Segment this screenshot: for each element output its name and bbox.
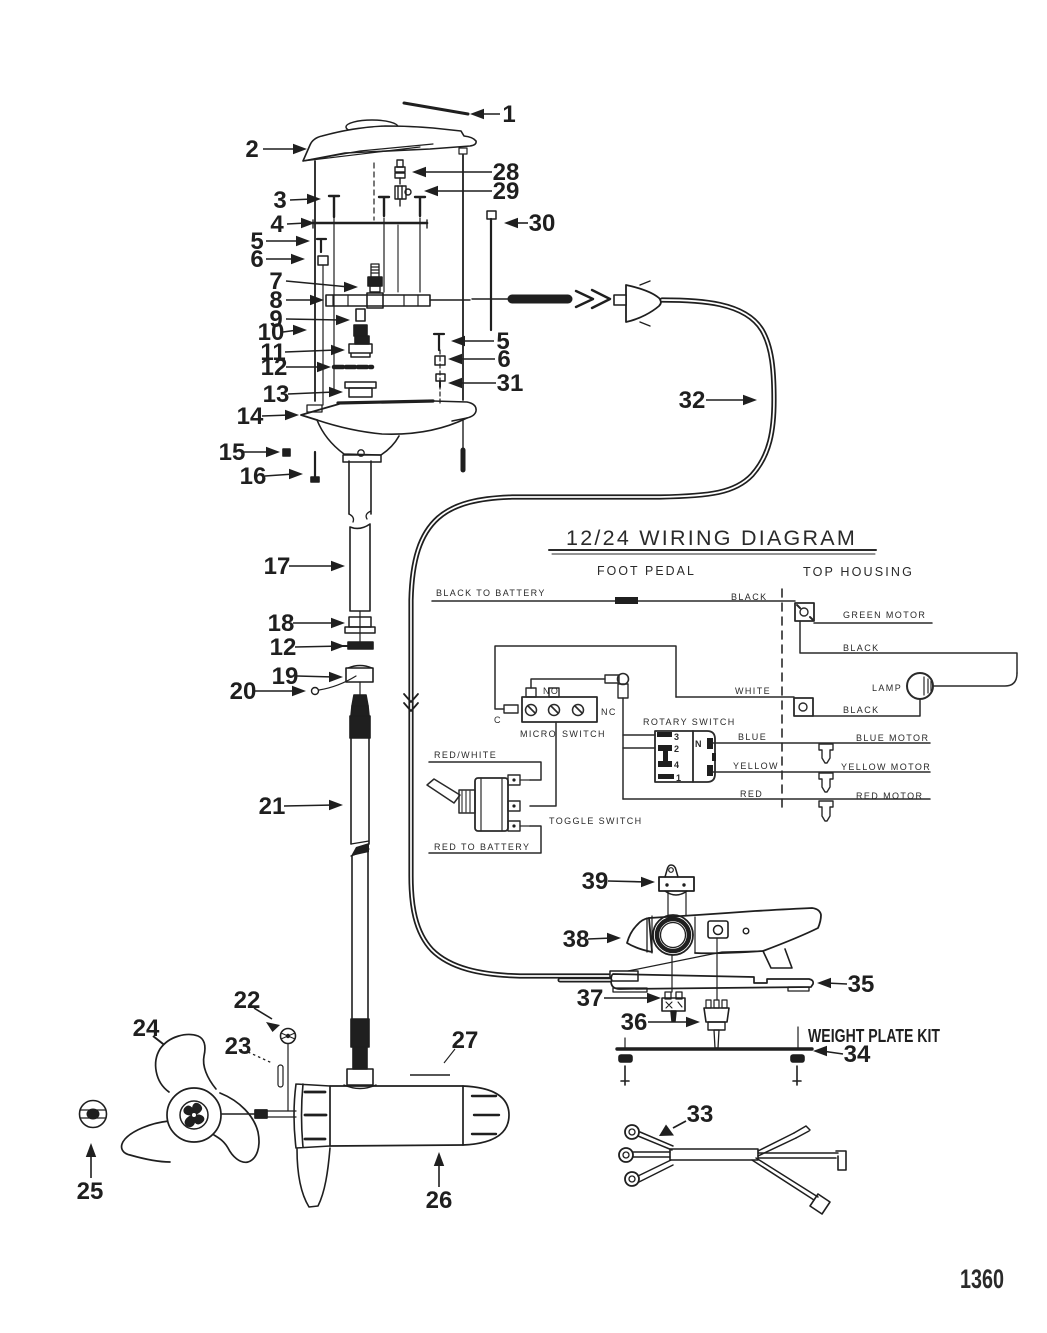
svg-text:GREEN MOTOR: GREEN MOTOR bbox=[843, 610, 926, 620]
collar 18 bbox=[349, 617, 371, 627]
dial ring bbox=[653, 915, 693, 955]
toggle switch neck bbox=[459, 790, 475, 813]
svg-text:39: 39 bbox=[582, 868, 609, 895]
branch up-right bbox=[758, 1133, 796, 1156]
label 36 leader bbox=[648, 1021, 691, 1023]
cover right nub bbox=[459, 148, 467, 154]
propeller blade right bbox=[214, 1093, 259, 1162]
bullet connector red bbox=[819, 801, 833, 821]
shaft break bbox=[351, 841, 369, 856]
svg-text:BLACK: BLACK bbox=[843, 705, 880, 715]
label 16 leader bbox=[265, 474, 294, 476]
leader button to 36 bbox=[716, 938, 718, 1000]
spacer 9 bbox=[356, 309, 365, 321]
label 11 leader bbox=[285, 350, 336, 352]
label 2 leader bbox=[263, 148, 298, 150]
long screw line mid bbox=[383, 218, 385, 292]
cable tie 30 bbox=[487, 211, 496, 219]
right hanging bolt bbox=[462, 420, 464, 450]
svg-text:MICRO: MICRO bbox=[520, 729, 557, 739]
micro switch body bbox=[522, 697, 597, 722]
bushing 10 bbox=[354, 325, 367, 336]
svg-text:SWITCH: SWITCH bbox=[562, 729, 606, 739]
connector housing 1 bbox=[795, 603, 814, 621]
svg-text:NC: NC bbox=[601, 707, 617, 717]
label 35 leader bbox=[826, 983, 847, 984]
connector 36 bbox=[706, 1000, 711, 1008]
wire BLACK upper bbox=[800, 621, 1017, 673]
svg-text:C: C bbox=[494, 715, 502, 725]
svg-text:20: 20 bbox=[230, 678, 257, 705]
svg-text:36: 36 bbox=[621, 1009, 648, 1036]
upper shaft tube bbox=[349, 461, 371, 514]
label 32 leader bbox=[706, 399, 748, 401]
seal 13 bbox=[345, 382, 376, 388]
label 10 leader bbox=[283, 330, 298, 332]
skeg fin bbox=[297, 1148, 330, 1207]
small hole bbox=[743, 928, 749, 934]
svg-text:3: 3 bbox=[273, 187, 286, 214]
svg-text:YELLOW: YELLOW bbox=[733, 761, 779, 771]
long screw line right bbox=[419, 218, 421, 292]
svg-text:31: 31 bbox=[497, 370, 524, 397]
top housing cover (2) bbox=[303, 126, 476, 161]
shaft segment 2 bbox=[350, 524, 370, 611]
svg-text:12: 12 bbox=[270, 634, 297, 661]
strain relief bell bbox=[626, 285, 661, 322]
svg-text:RED/WHITE: RED/WHITE bbox=[434, 750, 497, 760]
plate line (4) bbox=[313, 222, 427, 225]
part 1 rod bbox=[404, 103, 468, 114]
svg-text:29: 29 bbox=[493, 178, 520, 205]
cable thick segment at motor bbox=[472, 298, 512, 300]
label 23 leader bbox=[248, 1052, 272, 1063]
svg-text:24: 24 bbox=[133, 1015, 160, 1042]
screw 28 bbox=[395, 160, 405, 184]
svg-text:1: 1 bbox=[676, 773, 682, 783]
bullet connector yellow bbox=[819, 773, 833, 792]
svg-text:4: 4 bbox=[270, 211, 284, 238]
label 6 leader bbox=[457, 358, 495, 360]
bullet connector blue bbox=[819, 744, 833, 763]
toggle switch body bbox=[475, 778, 508, 831]
svg-text:32: 32 bbox=[679, 387, 706, 414]
prop nut 25 bbox=[80, 1101, 107, 1128]
ring terminal 3 bbox=[625, 1172, 639, 1186]
prop shaft bbox=[222, 1113, 255, 1115]
under-pedal braces bbox=[628, 951, 763, 971]
label 12 leader bbox=[295, 646, 343, 647]
bearing 11 bbox=[355, 336, 369, 344]
elbow connector bbox=[605, 675, 619, 683]
switch 37 bbox=[665, 992, 671, 999]
svg-text:FOOT PEDAL: FOOT PEDAL bbox=[597, 563, 696, 578]
svg-text:30: 30 bbox=[529, 210, 556, 237]
label 21 leader bbox=[284, 805, 334, 806]
svg-text:RED MOTOR: RED MOTOR bbox=[856, 791, 923, 801]
svg-text:TOGGLE SWITCH: TOGGLE SWITCH bbox=[549, 816, 643, 826]
wire NO to toggle bbox=[530, 722, 556, 806]
svg-text:26: 26 bbox=[426, 1187, 453, 1214]
svg-text:21: 21 bbox=[259, 793, 286, 820]
label 27 leader bbox=[444, 1049, 455, 1063]
svg-text:3: 3 bbox=[674, 732, 680, 742]
svg-text:16: 16 bbox=[240, 463, 267, 490]
svg-text:NO: NO bbox=[543, 686, 559, 696]
wire elbow to rotary bbox=[622, 698, 624, 799]
svg-text:LAMP: LAMP bbox=[872, 683, 902, 693]
washer stack 12 bbox=[334, 365, 372, 370]
svg-text:N: N bbox=[695, 739, 703, 749]
label 14 leader bbox=[262, 415, 290, 416]
main cable (32) bbox=[411, 300, 774, 976]
svg-text:6: 6 bbox=[497, 346, 510, 373]
screw 31 bbox=[436, 374, 445, 381]
branch right bbox=[758, 1153, 838, 1158]
svg-text:25: 25 bbox=[77, 1178, 104, 1205]
label 29 leader bbox=[433, 190, 492, 192]
label 6 leader bbox=[266, 258, 296, 260]
pin 5 right bbox=[434, 334, 444, 350]
svg-text:1360: 1360 bbox=[960, 1264, 1004, 1294]
svg-text:12: 12 bbox=[261, 354, 288, 381]
svg-text:37: 37 bbox=[577, 985, 604, 1012]
center dashed line bbox=[373, 163, 375, 220]
svg-text:BLACK TO BATTERY: BLACK TO BATTERY bbox=[436, 588, 546, 598]
cable end connector at pedal bbox=[610, 971, 638, 981]
svg-text:27: 27 bbox=[452, 1027, 479, 1054]
micro switch 39 bbox=[665, 865, 678, 877]
svg-text:17: 17 bbox=[264, 553, 291, 580]
harness bundle bbox=[670, 1149, 758, 1160]
svg-text:12/24 WIRING DIAGRAM: 12/24 WIRING DIAGRAM bbox=[566, 527, 857, 550]
label 8 leader bbox=[286, 299, 315, 301]
inner line from part 6 bbox=[322, 265, 324, 405]
svg-text:WEIGHT PLATE KIT: WEIGHT PLATE KIT bbox=[808, 1026, 940, 1046]
motor body right line bbox=[462, 155, 464, 400]
label 34 leader bbox=[822, 1051, 843, 1054]
centerline bbox=[359, 611, 361, 643]
svg-text:2: 2 bbox=[674, 744, 680, 754]
control loop wire bbox=[495, 646, 676, 709]
bolt 7 bbox=[371, 264, 379, 277]
spinner bbox=[184, 1103, 204, 1126]
svg-text:WHITE: WHITE bbox=[735, 686, 771, 696]
svg-text:15: 15 bbox=[219, 439, 246, 466]
motor housing body bbox=[330, 1086, 463, 1146]
svg-text:6: 6 bbox=[250, 246, 263, 273]
connector housing 2 bbox=[794, 698, 813, 716]
collar under housing bbox=[343, 455, 381, 462]
label 3 leader bbox=[290, 199, 312, 200]
label 1 leader bbox=[479, 113, 500, 115]
motor housing 26 front band bbox=[294, 1084, 330, 1148]
lower unit housing (14) bbox=[338, 401, 433, 403]
momentary button bbox=[708, 921, 728, 938]
svg-text:19: 19 bbox=[272, 663, 299, 690]
svg-text:23: 23 bbox=[225, 1033, 252, 1060]
label 18 leader bbox=[293, 622, 336, 624]
nuts bbox=[619, 1055, 632, 1062]
label 25 leader bbox=[90, 1152, 92, 1178]
steering arm (8) bbox=[326, 295, 430, 306]
propeller blade left bbox=[122, 1121, 170, 1162]
set screw 20 bbox=[312, 688, 319, 695]
weight plate (34) bbox=[617, 1047, 812, 1050]
svg-text:BLACK: BLACK bbox=[843, 643, 880, 653]
leader dial to 37 bbox=[671, 955, 673, 992]
label 12 leader bbox=[286, 366, 322, 368]
svg-text:RED TO BATTERY: RED TO BATTERY bbox=[434, 842, 530, 852]
toggle terminals bbox=[508, 775, 520, 785]
motor rear cap bbox=[463, 1086, 509, 1145]
long bolt line left bbox=[333, 218, 335, 393]
nut 6 left bbox=[318, 256, 328, 265]
branch down-right bbox=[752, 1158, 818, 1200]
svg-text:38: 38 bbox=[563, 926, 590, 953]
threaded end bbox=[351, 1019, 369, 1047]
right inner dashed line bbox=[439, 350, 441, 403]
svg-text:BLUE MOTOR: BLUE MOTOR bbox=[856, 733, 929, 743]
housing lip left bbox=[307, 405, 322, 412]
svg-text:33: 33 bbox=[687, 1101, 714, 1128]
shear pin 23 bbox=[278, 1065, 283, 1087]
base plate (35) bbox=[611, 974, 813, 989]
label 4 leader bbox=[287, 223, 306, 224]
label 7 leader bbox=[286, 281, 349, 287]
label 20 leader bbox=[255, 690, 297, 692]
bracket 29 bbox=[395, 186, 411, 206]
anode screw 22 bbox=[281, 1029, 296, 1044]
label 28 leader bbox=[421, 171, 492, 173]
svg-text:ROTARY SWITCH: ROTARY SWITCH bbox=[643, 717, 736, 727]
label 39 leader bbox=[608, 881, 646, 882]
label 24 leader bbox=[153, 1036, 172, 1051]
pin 5 left bbox=[317, 239, 326, 252]
dashed divider bbox=[781, 589, 783, 813]
svg-text:TOP HOUSING: TOP HOUSING bbox=[803, 564, 914, 579]
cable chevrons bbox=[576, 290, 610, 308]
label 9 leader bbox=[286, 319, 341, 320]
bolt mid bbox=[379, 197, 389, 216]
micro switch plug C bbox=[504, 705, 518, 713]
svg-text:BLACK: BLACK bbox=[731, 592, 768, 602]
depth collar 19 bbox=[348, 666, 372, 669]
cable into base bbox=[560, 978, 610, 983]
lower shaft tube (21) bbox=[351, 738, 369, 844]
prop hub bbox=[167, 1088, 221, 1142]
heel support bbox=[763, 949, 792, 968]
screws bbox=[621, 1066, 629, 1085]
svg-text:2: 2 bbox=[245, 136, 258, 163]
svg-text:22: 22 bbox=[234, 987, 261, 1014]
pin 15 bbox=[283, 449, 290, 456]
label 30 leader bbox=[513, 222, 528, 224]
label 17 leader bbox=[289, 565, 336, 567]
label 37 leader bbox=[604, 997, 652, 999]
label 26 leader bbox=[438, 1161, 440, 1187]
pedal top (38) bbox=[649, 908, 821, 953]
label 31 leader bbox=[457, 382, 496, 384]
svg-text:35: 35 bbox=[848, 971, 875, 998]
label 13 leader bbox=[288, 392, 334, 394]
bolt 3 bbox=[329, 196, 339, 217]
svg-text:RED: RED bbox=[740, 789, 763, 799]
svg-text:14: 14 bbox=[237, 403, 264, 430]
label 5 leader bbox=[460, 340, 494, 342]
rotary switch body bbox=[655, 731, 693, 782]
label 19 leader bbox=[297, 676, 334, 677]
svg-text:BLUE: BLUE bbox=[738, 732, 767, 742]
wire tab1 to elbow bbox=[531, 679, 605, 688]
svg-text:18: 18 bbox=[268, 610, 295, 637]
label 15 leader bbox=[244, 451, 271, 453]
motor body left line bbox=[314, 161, 316, 401]
lower shaft tube b bbox=[352, 852, 368, 1019]
svg-text:13: 13 bbox=[263, 381, 290, 408]
label 33 leader bbox=[673, 1121, 686, 1128]
toggle switch handle bbox=[427, 779, 460, 803]
cable break marks bbox=[404, 694, 418, 711]
ring terminal 1 bbox=[625, 1125, 639, 1139]
bolt right bbox=[415, 197, 425, 216]
label 5 leader bbox=[266, 240, 301, 242]
svg-text:YELLOW MOTOR: YELLOW MOTOR bbox=[841, 762, 931, 772]
motor collar bbox=[347, 1069, 373, 1085]
washer 12b bbox=[338, 645, 348, 647]
motor cover cap bbox=[346, 120, 398, 134]
label 38 leader bbox=[588, 938, 612, 939]
ring terminal 2 bbox=[619, 1148, 633, 1162]
propeller blade top bbox=[156, 1035, 216, 1092]
svg-text:4: 4 bbox=[674, 760, 680, 770]
pin 16 bbox=[314, 452, 316, 477]
black taper plug bbox=[352, 695, 368, 706]
svg-text:1: 1 bbox=[502, 101, 515, 128]
label 22 leader bbox=[254, 1008, 272, 1019]
nut 6 right bbox=[435, 356, 445, 365]
